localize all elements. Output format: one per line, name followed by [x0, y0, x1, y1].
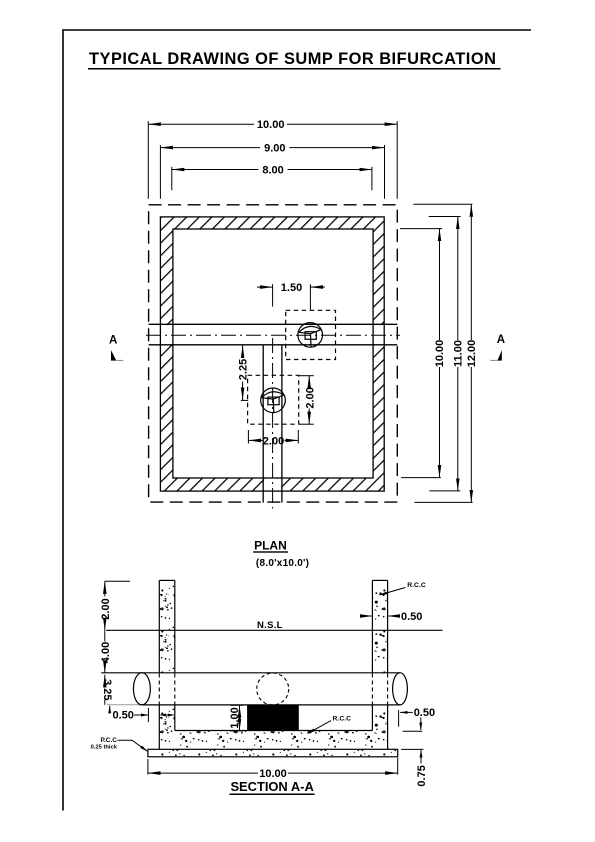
svg-text:1.00: 1.00 — [229, 707, 241, 728]
svg-text:R.C.C: R.C.C — [333, 716, 352, 723]
svg-text:10.00: 10.00 — [259, 768, 287, 780]
svg-text:1.50: 1.50 — [281, 282, 302, 294]
svg-text:(8.0'x10.0'): (8.0'x10.0') — [256, 558, 309, 569]
svg-text:0.25 thick: 0.25 thick — [91, 744, 118, 750]
svg-text:A: A — [497, 334, 505, 346]
svg-text:TYPICAL DRAWING OF SUMP FOR BI: TYPICAL DRAWING OF SUMP FOR BIFURCATION — [89, 50, 496, 68]
svg-text:2.00: 2.00 — [263, 435, 284, 447]
svg-text:0.50: 0.50 — [401, 611, 422, 623]
svg-text:3.25: 3.25 — [101, 679, 113, 700]
svg-text:9.00: 9.00 — [264, 143, 285, 155]
svg-text:0.50: 0.50 — [414, 707, 435, 719]
svg-text:PLAN: PLAN — [254, 538, 287, 552]
svg-text:2.00: 2.00 — [100, 598, 112, 619]
svg-text:10.00: 10.00 — [257, 119, 285, 131]
svg-text:4.00: 4.00 — [100, 642, 112, 663]
svg-text:A: A — [109, 334, 117, 346]
svg-text:N.S.L: N.S.L — [257, 620, 283, 631]
svg-text:R.C.C: R.C.C — [407, 582, 426, 589]
svg-text:8.00: 8.00 — [262, 164, 283, 176]
svg-text:11.00: 11.00 — [453, 340, 465, 367]
svg-text:2.00: 2.00 — [305, 387, 317, 408]
svg-text:P.C.C: P.C.C — [101, 737, 118, 744]
svg-text:0.50: 0.50 — [113, 709, 134, 721]
svg-text:10.00: 10.00 — [434, 340, 446, 368]
svg-text:0.75: 0.75 — [416, 765, 428, 786]
svg-text:12.00: 12.00 — [466, 340, 478, 368]
svg-text:SECTION A-A: SECTION A-A — [230, 779, 313, 794]
svg-text:2.25: 2.25 — [238, 359, 250, 380]
